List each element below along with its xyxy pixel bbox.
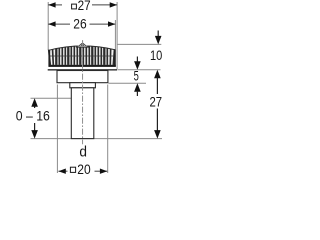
dimension 26: line (48, 23, 115, 25)
dimension 27 right: line upper segment (156, 78, 158, 95)
cap center dome (76, 43, 89, 47)
dimension 27 top: square symbol (72, 4, 77, 9)
centerline tick above dome (82, 40, 84, 44)
centerline (82, 41, 84, 145)
svg-text:10: 10 (150, 47, 162, 63)
cap knurled body: base fill (49, 46, 116, 67)
dimension 5 right: top arrow with stub (136, 57, 138, 63)
extension line flange right vertical (107, 85, 109, 174)
cap knurl mid seam (49, 55, 116, 57)
extension line cap rim bottom (B) (118, 69, 161, 71)
dimension 0-16 left: line and arrows (34, 104, 36, 133)
dimension 5: bottom arrow with stub (134, 83, 141, 92)
svg-text:0 – 16: 0 – 16 (16, 108, 50, 124)
svg-text:20: 20 (77, 161, 91, 177)
dimension 20 bottom: square symbol (70, 167, 75, 172)
dimension 10 right: top arrow with stub (157, 31, 159, 38)
svg-text:5: 5 (134, 68, 139, 84)
cap side edges (49, 50, 115, 67)
extension line right for dim 26 (114, 20, 116, 50)
dimension 27 top: arrows (48, 2, 117, 7)
dimension 20 bottom: line (58, 170, 107, 172)
svg-text:d: d (79, 145, 87, 161)
cap dome inner seam (78, 45, 88, 47)
extension line left (shared for dim 27 and 26) (31, 2, 163, 173)
cap dome inner tip (81, 43, 84, 46)
dimension 26: arrows (48, 21, 115, 26)
svg-text:27: 27 (150, 94, 163, 110)
cap knurl bottom band (49, 65, 116, 67)
extension line flange bottom (C) (109, 82, 147, 84)
cap rim line (48, 69, 118, 70)
extension line flange left vertical (56, 85, 58, 174)
cap knurl ribs (49, 46, 115, 65)
extension line cap top (A) (118, 43, 162, 45)
dimension 27 right: bottom arrow (154, 130, 161, 139)
collar (70, 83, 96, 88)
pipe (71, 88, 94, 139)
extension line insertion depth top (31, 97, 72, 99)
dimension 20 bottom: arrows (58, 169, 107, 174)
dimension 27 right: line lower segment (156, 109, 158, 132)
extension line right for dim 27 (116, 2, 118, 70)
svg-text:26: 26 (73, 16, 87, 32)
dimension 27 top: line (48, 4, 117, 6)
dimension 27 right: top arrow (154, 70, 161, 79)
cap top arc (49, 46, 116, 50)
flange (57, 71, 108, 83)
svg-text:27: 27 (78, 0, 91, 13)
extension line pipe bottom (31, 138, 163, 140)
